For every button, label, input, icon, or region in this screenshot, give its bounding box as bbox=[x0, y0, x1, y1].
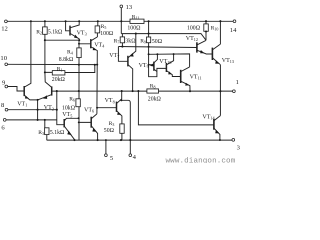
wire: second rail bbox=[121, 34, 206, 40]
svg-text:20kΩ: 20kΩ bbox=[52, 77, 66, 83]
resistor R2 5.1k body bbox=[43, 27, 48, 34]
transistor VT4 bbox=[79, 21, 98, 114]
svg-text:3kΩ: 3kΩ bbox=[125, 39, 136, 45]
wire: R2 bottom to VT3 emitter bbox=[45, 39, 79, 41]
wire: tail resistor leads bbox=[45, 120, 47, 140]
svg-text:VT11: VT11 bbox=[190, 75, 202, 81]
svg-text:VT10: VT10 bbox=[159, 59, 171, 65]
wire: terminal 13 riser bbox=[120, 8, 122, 34]
transistor VT13 bbox=[213, 21, 221, 115]
svg-text:100Ω: 100Ω bbox=[127, 26, 141, 32]
svg-text:50Ω: 50Ω bbox=[104, 128, 115, 134]
svg-text:20kΩ: 20kΩ bbox=[148, 97, 162, 103]
resistor R11 100ohm body bbox=[130, 19, 144, 23]
svg-text:VT5: VT5 bbox=[62, 112, 72, 118]
svg-text:4: 4 bbox=[133, 154, 137, 161]
svg-text:14: 14 bbox=[230, 27, 237, 34]
svg-text:8: 8 bbox=[1, 102, 5, 109]
svg-text:VT6: VT6 bbox=[84, 107, 94, 113]
wire: VT14 base line from node B bbox=[138, 91, 214, 125]
terminal 1 bbox=[233, 90, 236, 93]
junction dots terminal 10 line bbox=[78, 64, 80, 66]
transistor VT3 bbox=[66, 21, 80, 40]
emitter arrow VT12 bbox=[200, 50, 204, 53]
junction dots terminal 8 line bbox=[37, 109, 39, 111]
resistor R10 100ohm body bbox=[204, 24, 209, 31]
terminal 9 bbox=[5, 85, 8, 88]
transistor VT1 bbox=[8, 21, 38, 100]
svg-text:R3: R3 bbox=[38, 130, 44, 136]
wire: R10 leads bbox=[205, 21, 207, 40]
svg-text:5.1kΩ: 5.1kΩ bbox=[50, 130, 65, 136]
svg-text:www.diangon.com: www.diangon.com bbox=[166, 158, 236, 164]
svg-text:R3: R3 bbox=[109, 121, 115, 127]
transistor VT7 bbox=[118, 34, 135, 92]
wire: R7 leads bbox=[121, 34, 123, 47]
transistor VT8 bbox=[97, 91, 122, 140]
terminal 4 bbox=[129, 154, 132, 157]
resistor R7 3k body bbox=[120, 37, 124, 43]
wire: R9 lead and mirror loop bbox=[149, 34, 167, 77]
svg-text:R10: R10 bbox=[211, 25, 219, 31]
emitter arrow VT11 bbox=[185, 83, 189, 86]
junction dot VT6 base bbox=[78, 121, 80, 123]
junction dots node B line bbox=[56, 90, 58, 92]
emitter arrow VT3 bbox=[74, 35, 79, 39]
svg-text:R6: R6 bbox=[69, 97, 75, 103]
transistor VT11 bbox=[181, 67, 190, 91]
junction dot R10 bottom bbox=[205, 30, 207, 32]
wire: ground bottom rail bbox=[47, 139, 232, 141]
wire: VT12 base bias line bbox=[118, 47, 196, 48]
terminal 5 bbox=[105, 154, 108, 157]
svg-text:12: 12 bbox=[1, 26, 8, 33]
svg-text:R2: R2 bbox=[36, 29, 42, 35]
wire: VT9 base lead bbox=[149, 64, 154, 66]
transistor VT10 bbox=[167, 54, 181, 76]
svg-text:VT4: VT4 bbox=[94, 43, 105, 49]
wire: terminal 10 line bbox=[7, 63, 97, 65]
junction dot VT8 base bbox=[96, 107, 98, 109]
junction dot VT8 collector hook bbox=[120, 99, 122, 101]
emitter arrow VT6 bbox=[92, 128, 96, 132]
junction dots on second rail bbox=[135, 33, 137, 35]
svg-text:3: 3 bbox=[237, 145, 240, 152]
svg-text:R9: R9 bbox=[140, 39, 146, 45]
svg-text:1: 1 bbox=[236, 79, 239, 86]
transistor VT2 bbox=[38, 95, 52, 100]
terminal 10 bbox=[5, 63, 8, 66]
resistor R3b tail 5.1k body bbox=[45, 128, 49, 135]
emitter arrow VT5 bbox=[67, 131, 72, 136]
terminal 8 bbox=[5, 108, 8, 111]
transistor VT14 bbox=[214, 116, 220, 140]
resistor R9 50ohm body bbox=[147, 37, 151, 43]
resistor R8 20k body bbox=[147, 89, 159, 93]
svg-text:R8: R8 bbox=[150, 84, 156, 90]
transistor VT12 bbox=[197, 40, 212, 54]
svg-text:VT7: VT7 bbox=[109, 53, 119, 59]
svg-text:10: 10 bbox=[0, 55, 7, 62]
junction dots node R2 bottom bbox=[44, 39, 46, 41]
resistor R1 20k body bbox=[52, 71, 65, 75]
wire: +V top rail bbox=[7, 20, 233, 22]
wire: rail to second-rail connector bbox=[148, 21, 150, 33]
junction dot diff pair emitters bbox=[37, 99, 39, 101]
svg-text:VT1: VT1 bbox=[17, 102, 27, 108]
terminal 13 bbox=[120, 5, 123, 8]
terminal 14 bbox=[233, 20, 236, 23]
wire: long x79 line (VT3e-R4-R6) bbox=[78, 40, 80, 140]
wire: VT8 collector hook to terminal 4 bbox=[121, 100, 130, 154]
svg-text:VT14: VT14 bbox=[202, 114, 215, 120]
svg-text:R5: R5 bbox=[101, 24, 107, 30]
terminal 3 bbox=[232, 139, 235, 142]
resistor R6 10k body bbox=[76, 99, 80, 107]
wire: mirror bus to VT11 collector bbox=[149, 54, 190, 67]
svg-text:10kΩ: 10kΩ bbox=[62, 106, 76, 112]
emitter arrow VT2 bbox=[43, 95, 47, 99]
transistor VT6 bbox=[79, 114, 98, 140]
transistor VT5 bbox=[65, 118, 79, 140]
emitter arrow VT14 bbox=[215, 130, 219, 134]
svg-text:100Ω: 100Ω bbox=[100, 31, 114, 37]
junction dots on mirror bus bbox=[156, 53, 158, 55]
junction dots terminal 6 line bbox=[37, 119, 39, 121]
transistor VT9 bbox=[154, 54, 157, 71]
wire: terminal 8 line bbox=[8, 109, 57, 111]
svg-text:8.8kΩ: 8.8kΩ bbox=[59, 57, 74, 63]
resistor R4 8.8k body bbox=[77, 48, 81, 58]
emitter arrow VT1 bbox=[25, 96, 29, 99]
junction dot VT4 base bbox=[78, 43, 80, 45]
emitter arrow VT7 (PNP, points toward bar) bbox=[129, 53, 133, 57]
resistor R5 100ohm body bbox=[95, 26, 100, 33]
wire: terminal 5 stub bbox=[105, 140, 107, 154]
terminal 12 bbox=[5, 20, 8, 23]
junction dot R1 left bbox=[44, 71, 46, 73]
resistor R3 50ohm body bbox=[120, 124, 124, 133]
svg-text:100Ω: 100Ω bbox=[187, 26, 201, 32]
svg-text:5.1kΩ: 5.1kΩ bbox=[48, 29, 63, 35]
junction dots on bias line bbox=[121, 46, 123, 48]
wire: node B line (VT2 base / R8 / output) bbox=[52, 90, 233, 92]
emitter arrow VT10 bbox=[168, 71, 172, 74]
svg-text:VT12: VT12 bbox=[186, 36, 198, 42]
wire: terminal 6 line bbox=[6, 119, 57, 121]
svg-text:6: 6 bbox=[1, 124, 5, 131]
svg-text:VT2: VT2 bbox=[44, 105, 54, 111]
svg-text:13: 13 bbox=[126, 4, 133, 11]
junction dots on top rail bbox=[30, 20, 32, 22]
wire: R2 drop and VT2 collector riser bbox=[45, 21, 52, 87]
terminal 6 bbox=[3, 119, 6, 122]
junction dot VT5 collector bbox=[78, 117, 80, 119]
svg-text:R4: R4 bbox=[67, 50, 73, 56]
svg-text:R1: R1 bbox=[57, 66, 63, 72]
svg-text:R7: R7 bbox=[114, 39, 120, 45]
junction dots ground rail bbox=[73, 139, 75, 141]
svg-text:VT13: VT13 bbox=[222, 58, 234, 64]
wire: tail riser bbox=[37, 100, 39, 120]
svg-text:VT3: VT3 bbox=[77, 31, 87, 37]
emitter arrow VT9 (toward bar) bbox=[150, 63, 154, 66]
emitter arrow VT4 bbox=[93, 47, 97, 50]
emitter arrow VT8 bbox=[117, 112, 121, 115]
svg-text:VT8: VT8 bbox=[105, 98, 115, 104]
svg-text:5: 5 bbox=[110, 155, 114, 162]
svg-text:R11: R11 bbox=[132, 14, 140, 20]
svg-text:VT9: VT9 bbox=[139, 63, 149, 69]
wire: R1 leads bbox=[45, 65, 95, 73]
junction dot VT9 base bbox=[148, 64, 150, 66]
svg-text:50Ω: 50Ω bbox=[152, 39, 163, 45]
emitter arrow VT13 bbox=[215, 60, 219, 64]
wire: node B to VT5 base riser bbox=[57, 91, 64, 125]
